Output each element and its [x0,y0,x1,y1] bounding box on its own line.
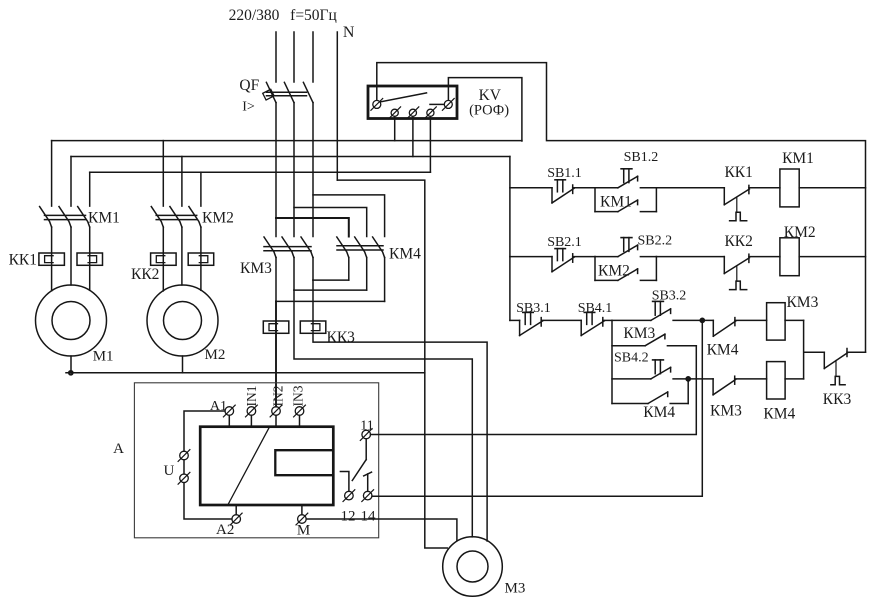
wire row2 from rail [510,256,552,258]
wire KM3 pole1 output [275,258,277,302]
terminal 12 [343,490,355,502]
thermal contact KK3 [824,349,865,385]
label KM3 contacts [240,260,272,277]
terminal IN3 [294,405,306,427]
svg-text:КМ4: КМ4 [763,406,795,423]
label KK3 heaters [327,329,356,346]
auxiliary contact KM4 [612,392,688,404]
wire SB2.2 left [595,256,618,258]
wire KM2 pole1 to motor [162,227,164,291]
auxiliary contact KM2 [595,269,656,281]
svg-text:КМ1: КМ1 [88,210,120,227]
svg-text:IN3: IN3 [291,385,306,406]
label SB2.2 [637,234,672,249]
svg-text:М: М [297,523,310,539]
auxiliary contact KM3 [612,334,696,346]
svg-text:(РОФ): (РОФ) [469,103,509,119]
thermal relay KK1 heater 1 [39,253,65,265]
wire coil KM3 right [785,319,804,321]
svg-text:КК1: КК1 [724,164,752,181]
wire KV terminal 3 to bus C [429,117,431,173]
coil KM2 [780,238,799,276]
wire KV output to control rails [377,63,866,353]
thermal relay KK1 heater 2 [77,253,103,265]
label KM1 contacts [88,210,120,227]
device A enclosure [134,383,378,538]
svg-text:IN1: IN1 [244,386,259,407]
wire terminal 14 to row3 [372,320,702,496]
wire row1 from rail [510,187,552,189]
svg-text:SB1.1: SB1.1 [547,166,582,181]
wire M2 phase B drop [181,157,183,207]
wire row2 to KK2 [656,256,724,258]
wire L3 below QF [312,103,314,237]
wire M2 star point down [182,356,184,373]
label M2 [205,347,226,363]
terminal U upper [178,450,190,462]
svg-text:КМ3: КМ3 [240,260,272,277]
label KV [479,87,502,104]
wire KM4 break to coil KM3 [735,319,767,321]
label KM3 coil [786,294,818,311]
label KM4 aux [643,404,675,421]
node P1 junction [700,319,704,323]
wire KM1 pole3 to motor [89,227,91,290]
label M3 [505,581,526,597]
relay KV (POF) box [368,86,457,119]
svg-text:IN2: IN2 [271,386,286,407]
pushbutton SB1.2 [618,169,638,188]
terminal 11 [360,429,372,441]
svg-text:КК1: КК1 [9,252,37,269]
thermal relay KK2 heater 1 [151,253,177,265]
breaking contact KM3 [713,376,735,395]
svg-text:КМ2: КМ2 [202,210,234,227]
wire KK2 to coil KM2 [749,256,780,258]
svg-text:QF: QF [239,77,259,94]
wire L1 drop from supply [275,32,277,82]
wire crossover phase B to KM4 pole2 [294,208,367,237]
wire U1 to input IN2 [275,301,277,406]
label KM2 coil [784,224,816,241]
label KM4 coil [763,406,795,423]
wire coil KM2 to right rail [799,256,865,258]
label (POF) [469,103,509,119]
svg-text:КМ1: КМ1 [782,150,814,167]
wire A1 to U input [184,411,225,451]
wire N vertical [336,32,338,180]
wire KM3 break to coil KM4 [735,378,767,380]
svg-text:f=50Гц: f=50Гц [290,7,337,24]
label A1 [210,399,227,414]
svg-text:SB2.1: SB2.1 [547,235,582,250]
terminal M [296,505,308,525]
svg-text:SB3.1: SB3.1 [516,301,551,316]
label M1 [93,349,114,365]
label KK1 [9,252,37,269]
label 12 [341,508,356,524]
wire row3 from rail [510,319,520,321]
wire crossover phase A to KM4 pole1 [276,218,349,237]
wire M1 star point down [70,356,72,373]
svg-text:КМ3: КМ3 [786,294,818,311]
label IN2 [271,386,286,407]
pushbutton SB2.1 [552,249,574,272]
terminal A1 [223,405,235,427]
wire M output to motor M3 [306,519,457,540]
label SB1.1 [547,166,582,181]
svg-text:М2: М2 [205,347,226,363]
wire M1 phase B drop [70,157,72,207]
wire SB3.2 left [612,319,651,321]
branch bracket left KM2 [594,257,596,281]
svg-text:220/380: 220/380 [229,7,280,24]
svg-text:КМ1: КМ1 [600,194,632,211]
branch bracket right KM2 [655,257,657,281]
label IN3 [291,385,306,406]
wire KM1 pole1 to motor [51,227,53,291]
label SB4.2 [614,351,649,366]
svg-text:КМ4: КМ4 [389,246,421,263]
label KM2 aux [598,262,630,279]
label KM3 break [710,403,742,420]
contactor contacts KM2 [151,207,201,228]
wire coil KM4 right [785,378,804,380]
svg-text:12: 12 [341,508,356,524]
wire SB3.2 right [673,319,713,321]
wire output tie U1 [276,300,385,302]
wire KM4 pole2 output [366,258,368,291]
svg-text:КМ4: КМ4 [707,342,739,359]
svg-text:А: А [113,441,124,457]
device A inner tab [275,450,333,475]
label KK3 contact [823,391,852,408]
node P2 junction [686,377,690,381]
wire KM1 pole2 to motor [70,227,72,285]
coil KM1 [780,169,799,207]
motor M2 [147,285,218,356]
pushbutton SB3.2 [651,301,671,320]
wire SB2.1 to branch [573,256,595,258]
KV left contact terminal [371,99,383,111]
wire U lower to A2 [184,483,232,519]
svg-text:КМ3: КМ3 [623,325,655,342]
label 220/380 supply [229,7,280,24]
pushbutton SB4.2 [651,360,671,379]
terminal 14 [362,490,374,502]
wire M1 phase A drop [51,141,53,207]
KV bottom terminal 3 [425,107,437,119]
KV bottom terminal 2 [407,107,419,119]
wire crossover phase C to KM4 pole3 [313,195,385,237]
label SB3.2 [652,289,687,304]
svg-text:11: 11 [360,419,373,434]
wire KM4 pole1 output [348,258,350,281]
terminal IN1 [246,405,258,427]
label SB2.1 [547,235,582,250]
wire SB1.2 right [640,187,656,189]
branch bracket right KM1 [655,188,657,212]
wire row1 to KK1 [656,187,724,189]
wire L3 drop from supply [312,32,314,82]
label SB4.1 [578,301,613,316]
wire M2 phase A drop [162,141,164,207]
node N label [343,24,355,41]
pushbutton SB1.1 [552,180,574,203]
thermal relay KK3 heater 2 [300,321,326,333]
motor M1 [36,285,107,356]
wire KM2 pole2 to motor [181,227,183,285]
wire KV terminal 2 to bus B [412,117,414,157]
wire SB2.2 right [640,256,656,258]
svg-text:КМ2: КМ2 [784,224,816,241]
auxiliary contact KM1 [595,200,656,212]
wire M1 phase C drop [89,172,91,206]
svg-text:КК2: КК2 [131,266,159,283]
pushbutton SB4.1 [581,312,604,335]
svg-text:КК2: КК2 [724,233,752,250]
label KM2 contacts [202,210,234,227]
coil KM3 [767,303,786,340]
wire SB4.2 branch left [612,378,651,380]
wire KM2 pole3 to motor [200,227,202,290]
label 11 [360,419,373,434]
label A2 [216,522,234,538]
branch bracket right KM4 aux [687,379,689,404]
wire L2 below QF [293,103,295,237]
label KM3 aux [623,325,655,342]
svg-text:КМ2: КМ2 [598,262,630,279]
wire SB1.1 to branch [573,187,595,189]
wire KK1 to coil KM1 [749,187,780,189]
wire coils common [804,320,825,379]
KV switch blade [381,93,427,102]
label SB1.2 [624,150,659,165]
label IN1 [244,386,259,407]
svg-text:SB1.2: SB1.2 [624,150,659,165]
KV fixed contact line [430,103,444,105]
branch bracket rows 3-4 [611,320,613,403]
contactor contacts KM4 [337,237,385,258]
wire L2 drop from supply [293,32,295,82]
svg-text:SB4.1: SB4.1 [578,301,613,316]
wire coil KM1 to right rail [799,187,865,189]
terminal U lower [178,472,190,484]
label U [163,463,174,479]
label KM4 break [707,342,739,359]
svg-text:I>: I> [242,100,255,115]
circuit breaker QF [239,77,313,115]
svg-text:КК3: КК3 [823,391,852,408]
bus phase C [90,171,431,173]
thermal contact KK1 [724,185,749,220]
control left rail [509,157,511,321]
label KK1 contact [724,164,752,181]
svg-text:SB4.2: SB4.2 [614,351,649,366]
wire SB1.2 left [595,187,618,189]
svg-text:КК3: КК3 [327,329,356,346]
wire SB4.2 right [673,378,713,380]
pushbutton SB2.2 [618,238,638,257]
svg-text:М3: М3 [505,581,526,597]
svg-text:М1: М1 [93,349,114,365]
svg-text:A2: A2 [216,522,234,538]
contactor contacts KM1 [40,207,90,228]
device A diagonal [228,428,269,504]
label KM4 contacts [389,246,421,263]
label KK2 [131,266,159,283]
coil KM4 [767,362,786,399]
label f=50Hz [290,7,337,24]
wire KM3 pole2 output [293,258,295,291]
wire M2 phase C drop [200,172,202,206]
label M output [297,523,310,539]
wire output tie U2 [294,289,367,291]
pushbutton SB3.1 [520,312,543,335]
label KM1 aux [600,194,632,211]
relay contact 11-12-14 [340,439,371,492]
svg-text:14: 14 [361,508,377,524]
wire SB3.1 to SB4.1 [541,319,581,321]
svg-text:SB3.2: SB3.2 [652,289,687,304]
label KK2 contact [724,233,752,250]
label SB3.1 [516,301,551,316]
branch bracket left KM1 [594,188,596,212]
device A main block [200,427,333,505]
wire U3 to motor M3 [313,280,487,541]
wire U2 to motor M3 [294,290,472,537]
thermal contact KK2 [724,254,749,289]
svg-text:КМ3: КМ3 [710,403,742,420]
wire KM3 pole3 output [312,258,314,281]
wire L1 below QF [275,103,277,237]
bus phase A [52,140,522,142]
wire KV terminal 1 to bus A [394,117,396,141]
svg-text:N: N [343,24,355,41]
terminal IN2 [270,405,282,427]
wire terminal 11 to KM3 hold [371,346,697,435]
KV bottom terminal 1 [389,107,401,119]
bus phase B [71,156,510,158]
thermal relay KK2 heater 2 [188,253,214,265]
terminal A2 [230,505,242,525]
wire output tie U3 [313,279,349,281]
svg-text:SB2.2: SB2.2 [637,234,672,249]
wire U link [183,460,185,474]
motor M3 [443,537,503,597]
svg-text:КМ4: КМ4 [643,404,675,421]
KV label frame [448,78,522,141]
label 14 [361,508,377,524]
label KM1 coil [782,150,814,167]
thermal relay KK3 heater 1 [263,321,289,333]
wire motor star points to N [66,371,425,375]
label A device [113,441,124,457]
svg-text:KV: KV [479,87,502,104]
svg-text:U: U [163,463,174,479]
KV right contact terminal [442,99,454,111]
wire SB4.1 to junction [603,319,612,321]
breaking contact KM4 [713,318,735,337]
contactor contacts KM3 [264,237,313,258]
wire N routing to M3 [337,180,447,548]
wire KM4 pole3 output [384,258,386,302]
